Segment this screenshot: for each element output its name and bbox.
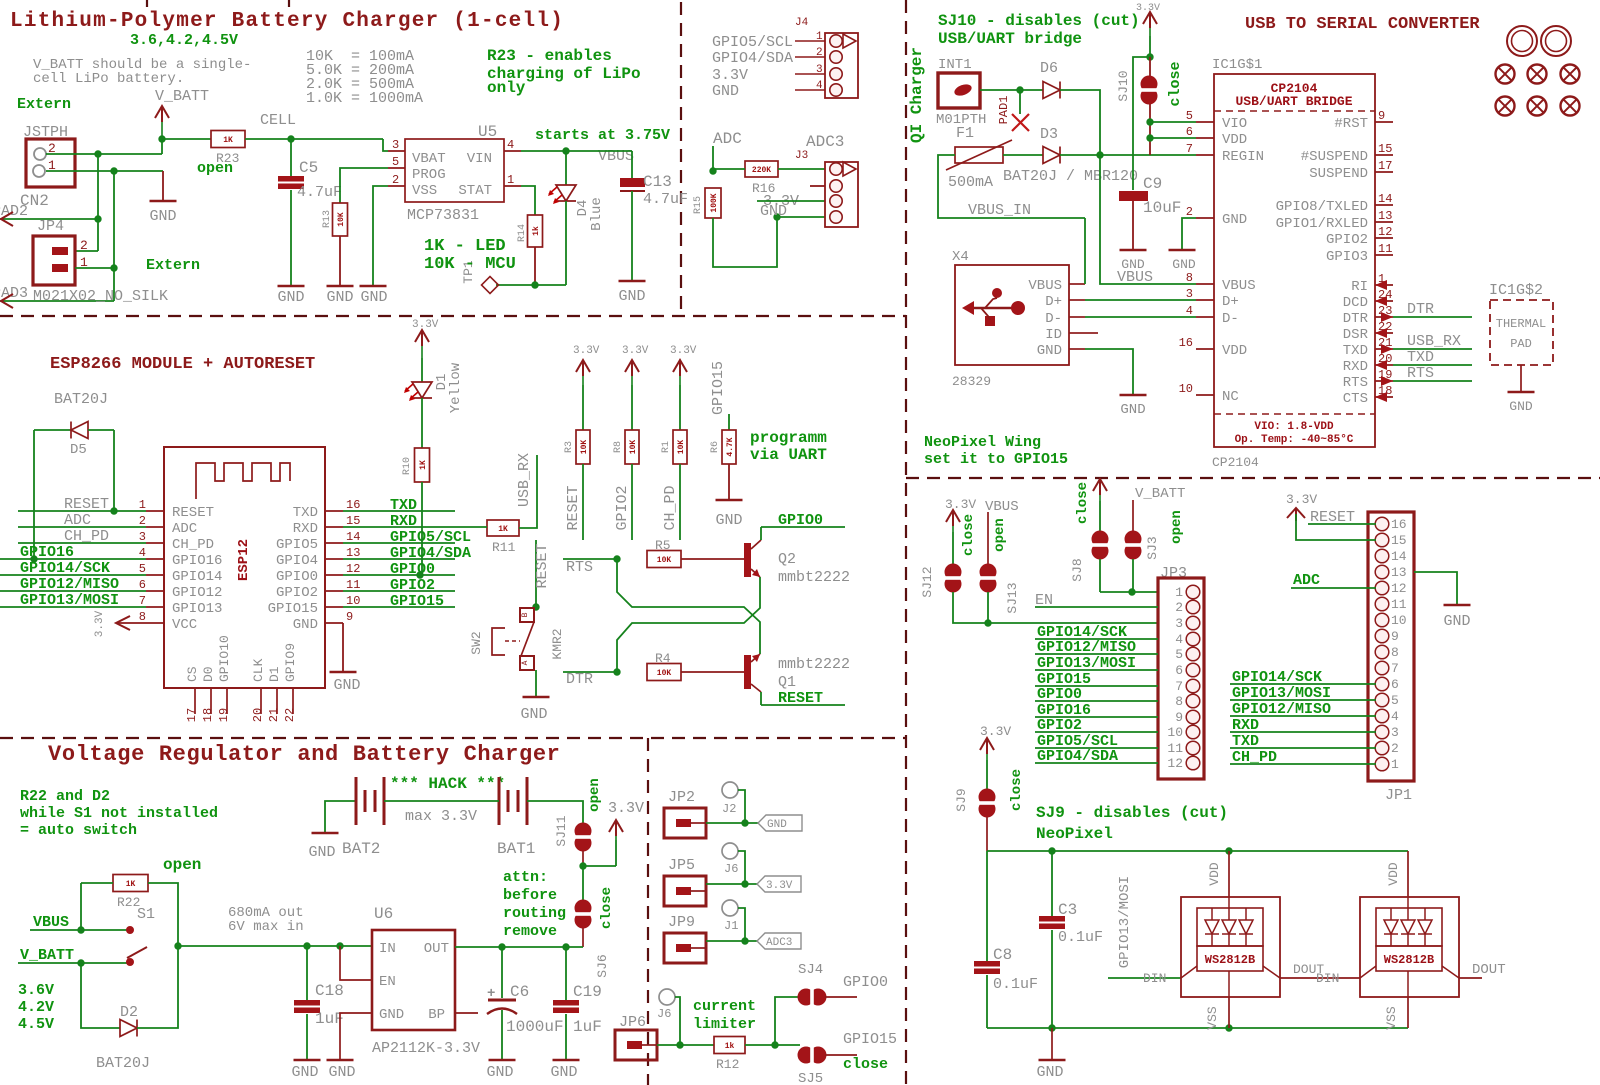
svg-text:close: close xyxy=(843,1056,888,1073)
svg-text:IN: IN xyxy=(379,941,396,957)
svg-text:D-: D- xyxy=(1222,311,1239,327)
svg-text:GND: GND xyxy=(1443,613,1470,630)
svg-text:3.6,4.2,4.5V: 3.6,4.2,4.5V xyxy=(130,32,238,49)
svg-text:12: 12 xyxy=(1391,581,1407,596)
svg-text:QI Charger: QI Charger xyxy=(908,47,926,143)
svg-text:R3: R3 xyxy=(564,441,575,453)
svg-text:RESET: RESET xyxy=(172,505,214,521)
svg-text:6: 6 xyxy=(1391,677,1399,692)
svg-text:X4: X4 xyxy=(952,249,969,265)
svg-text:3.3V: 3.3V xyxy=(766,880,793,892)
svg-text:*** HACK ***: *** HACK *** xyxy=(390,775,505,793)
svg-text:R4: R4 xyxy=(655,651,671,666)
svg-text:GPIO5/SCL: GPIO5/SCL xyxy=(390,529,471,546)
svg-text:2: 2 xyxy=(392,173,399,187)
svg-text:close: close xyxy=(599,887,615,929)
svg-text:28329: 28329 xyxy=(952,374,991,389)
svg-text:GND: GND xyxy=(1121,257,1145,272)
svg-text:JP5: JP5 xyxy=(668,857,695,874)
svg-text:12: 12 xyxy=(1167,756,1183,771)
svg-text:ADC: ADC xyxy=(713,130,742,148)
svg-text:max 3.3V: max 3.3V xyxy=(405,808,477,825)
svg-text:cell LiPo battery.: cell LiPo battery. xyxy=(33,71,184,87)
svg-text:TXD: TXD xyxy=(390,497,417,514)
svg-text:programm: programm xyxy=(750,429,827,447)
svg-text:SJ3: SJ3 xyxy=(1145,536,1160,559)
svg-text:IC1G$2: IC1G$2 xyxy=(1489,282,1543,299)
svg-text:16: 16 xyxy=(1391,517,1407,532)
svg-text:SUSPEND: SUSPEND xyxy=(1309,166,1368,182)
svg-text:R15: R15 xyxy=(693,196,704,214)
svg-text:R6: R6 xyxy=(710,441,721,453)
svg-text:VBAT: VBAT xyxy=(412,151,446,167)
svg-text:V_BATT: V_BATT xyxy=(155,88,209,105)
svg-text:GND: GND xyxy=(328,1064,355,1081)
svg-text:DTR: DTR xyxy=(1407,301,1434,318)
svg-text:WS2812B: WS2812B xyxy=(1205,953,1255,967)
svg-text:10K - MCU: 10K - MCU xyxy=(424,255,516,274)
svg-text:1000uF: 1000uF xyxy=(506,1018,564,1036)
svg-text:3.3V: 3.3V xyxy=(1286,492,1317,507)
svg-text:10K: 10K xyxy=(629,440,638,455)
svg-text:3: 3 xyxy=(139,530,146,544)
svg-text:GPIO0: GPIO0 xyxy=(276,569,318,585)
svg-text:RXD: RXD xyxy=(1343,359,1368,375)
svg-text:SJ8: SJ8 xyxy=(1070,558,1085,581)
svg-text:CH_PD: CH_PD xyxy=(172,537,214,553)
svg-text:only: only xyxy=(487,79,526,97)
svg-text:TXD: TXD xyxy=(1232,733,1259,750)
svg-text:0.1uF: 0.1uF xyxy=(1058,929,1103,946)
svg-text:3.3V: 3.3V xyxy=(412,319,439,331)
svg-text:GPIO15: GPIO15 xyxy=(268,601,318,617)
svg-text:4: 4 xyxy=(139,546,146,560)
svg-text:VIN: VIN xyxy=(467,151,492,167)
svg-text:GPIO15: GPIO15 xyxy=(710,361,727,415)
svg-text:D+: D+ xyxy=(1222,294,1239,310)
svg-text:GND: GND xyxy=(618,288,645,305)
svg-text:remove: remove xyxy=(503,923,557,940)
svg-text:CP2104: CP2104 xyxy=(1212,455,1259,470)
svg-text:1K: 1K xyxy=(419,460,428,470)
svg-text:6V max in: 6V max in xyxy=(228,919,304,935)
svg-text:13: 13 xyxy=(1391,565,1407,580)
svg-text:PAD1: PAD1 xyxy=(997,96,1011,125)
svg-text:10: 10 xyxy=(346,594,360,608)
svg-text:GND: GND xyxy=(326,289,353,306)
svg-text:3.3V: 3.3V xyxy=(712,67,748,84)
svg-text:8: 8 xyxy=(1175,694,1183,709)
svg-text:7: 7 xyxy=(1175,679,1183,694)
svg-text:5: 5 xyxy=(392,155,399,169)
svg-text:JP1: JP1 xyxy=(1385,787,1412,804)
svg-text:VSS: VSS xyxy=(1384,1006,1399,1030)
svg-text:1: 1 xyxy=(1175,585,1183,600)
svg-text:current: current xyxy=(693,998,756,1015)
svg-text:VSS: VSS xyxy=(412,183,437,199)
svg-text:4: 4 xyxy=(816,80,823,92)
svg-text:15: 15 xyxy=(1378,142,1392,156)
svg-text:VDD: VDD xyxy=(1207,862,1222,886)
svg-text:DIN: DIN xyxy=(1316,971,1339,986)
svg-text:RESET: RESET xyxy=(778,690,823,707)
svg-text:GPIO4/SDA: GPIO4/SDA xyxy=(390,545,471,562)
svg-text:R10: R10 xyxy=(402,457,413,475)
svg-text:GPIO3: GPIO3 xyxy=(1326,249,1368,265)
svg-text:USB/UART BRIDGE: USB/UART BRIDGE xyxy=(1235,94,1352,109)
svg-text:0.1uF: 0.1uF xyxy=(993,976,1038,993)
svg-text:10: 10 xyxy=(1179,382,1193,396)
svg-text:WS2812B: WS2812B xyxy=(1384,953,1434,967)
svg-text:CTS: CTS xyxy=(1343,391,1368,407)
svg-text:GPIO14: GPIO14 xyxy=(172,569,222,585)
svg-text:RESET: RESET xyxy=(534,543,551,588)
svg-text:GPIO15: GPIO15 xyxy=(843,1031,897,1048)
svg-text:C3: C3 xyxy=(1058,901,1077,919)
svg-text:14: 14 xyxy=(1391,549,1407,564)
svg-text:5: 5 xyxy=(139,562,146,576)
svg-text:IC1G$1: IC1G$1 xyxy=(1212,57,1262,73)
svg-text:TXD: TXD xyxy=(293,505,318,521)
svg-text:18: 18 xyxy=(201,708,215,722)
svg-text:Blue: Blue xyxy=(589,197,605,231)
svg-text:GND: GND xyxy=(760,203,787,220)
svg-text:GPIO13/MOSI: GPIO13/MOSI xyxy=(1037,655,1136,672)
svg-text:RXD: RXD xyxy=(1232,717,1259,734)
svg-text:RI: RI xyxy=(1351,279,1368,295)
svg-text:DTR: DTR xyxy=(566,671,593,688)
svg-text:10K: 10K xyxy=(337,212,346,227)
svg-text:OUT: OUT xyxy=(424,941,449,957)
svg-text:GND: GND xyxy=(291,1064,318,1081)
svg-text:TXD: TXD xyxy=(1407,349,1434,366)
svg-text:U5: U5 xyxy=(478,123,497,141)
svg-text:VBUS: VBUS xyxy=(1222,278,1256,294)
svg-text:GPIO5/SCL: GPIO5/SCL xyxy=(712,34,793,51)
svg-text:4.7uF: 4.7uF xyxy=(643,191,688,208)
svg-text:GND: GND xyxy=(333,677,360,694)
svg-text:close: close xyxy=(1075,482,1091,524)
svg-text:routing: routing xyxy=(503,905,566,922)
svg-text:1k: 1k xyxy=(532,226,541,236)
svg-text:4.7K: 4.7K xyxy=(726,437,735,456)
svg-text:C6: C6 xyxy=(510,983,529,1001)
svg-text:THERMAL: THERMAL xyxy=(1496,317,1546,331)
svg-text:17: 17 xyxy=(1378,159,1392,173)
svg-text:C5: C5 xyxy=(299,159,318,177)
svg-text:1: 1 xyxy=(1391,757,1399,772)
svg-text:GPIO13/MOSI: GPIO13/MOSI xyxy=(1117,876,1133,968)
svg-text:20: 20 xyxy=(251,708,265,722)
svg-text:GPIO0: GPIO0 xyxy=(778,512,823,529)
svg-text:1: 1 xyxy=(816,31,823,43)
svg-text:2: 2 xyxy=(1391,741,1399,756)
svg-text:4.7uF: 4.7uF xyxy=(297,184,342,201)
svg-text:GND: GND xyxy=(486,1064,513,1081)
svg-text:GND: GND xyxy=(550,1064,577,1081)
svg-text:VDD: VDD xyxy=(1386,862,1401,886)
svg-text:J6: J6 xyxy=(657,1007,671,1021)
svg-text:VBUS: VBUS xyxy=(985,499,1019,515)
svg-text:mmbt2222: mmbt2222 xyxy=(778,656,850,673)
svg-text:J1: J1 xyxy=(724,919,738,933)
svg-text:D6: D6 xyxy=(1040,60,1058,77)
svg-text:SJ9 - disables (cut): SJ9 - disables (cut) xyxy=(1036,804,1228,822)
svg-text:9: 9 xyxy=(1378,109,1385,123)
svg-text:7: 7 xyxy=(1186,142,1193,156)
svg-text:1K: 1K xyxy=(223,136,233,145)
svg-text:open: open xyxy=(1169,510,1185,544)
svg-text:M021X02_NO_SILK: M021X02_NO_SILK xyxy=(33,288,168,305)
svg-text:ADC: ADC xyxy=(172,521,197,537)
svg-text:D0: D0 xyxy=(201,666,216,682)
svg-text:12: 12 xyxy=(346,562,360,576)
svg-text:1: 1 xyxy=(139,498,146,512)
svg-text:9: 9 xyxy=(1175,710,1183,725)
svg-text:GPIO2: GPIO2 xyxy=(1037,717,1082,734)
svg-text:3: 3 xyxy=(1186,287,1193,301)
svg-text:GND: GND xyxy=(379,1007,404,1023)
svg-text:USB/UART bridge: USB/UART bridge xyxy=(938,30,1082,48)
svg-text:V_BATT: V_BATT xyxy=(1135,486,1185,502)
svg-text:CLK: CLK xyxy=(251,658,266,682)
svg-text:limiter: limiter xyxy=(693,1016,756,1033)
svg-text:21: 21 xyxy=(267,708,281,722)
svg-text:CH_PD: CH_PD xyxy=(662,485,679,530)
svg-text:16: 16 xyxy=(346,498,360,512)
svg-text:R8: R8 xyxy=(613,441,624,453)
svg-text:VIO: 1.8-VDD: VIO: 1.8-VDD xyxy=(1254,421,1334,433)
svg-text:10K: 10K xyxy=(657,556,672,565)
svg-text:attn:: attn: xyxy=(503,869,548,886)
svg-text:V_BATT: V_BATT xyxy=(20,947,74,964)
svg-text:11: 11 xyxy=(346,578,360,592)
svg-text:3.3V: 3.3V xyxy=(622,345,649,357)
svg-text:C9: C9 xyxy=(1143,175,1162,193)
svg-text:BAT20J: BAT20J xyxy=(54,391,108,408)
svg-text:R23 - enables: R23 - enables xyxy=(487,47,612,65)
svg-text:6: 6 xyxy=(139,578,146,592)
svg-text:U6: U6 xyxy=(374,905,393,923)
svg-text:via UART: via UART xyxy=(750,446,827,464)
svg-text:J6: J6 xyxy=(724,862,738,876)
svg-text:GPIO13: GPIO13 xyxy=(172,601,222,617)
svg-text:set it to GPIO15: set it to GPIO15 xyxy=(924,451,1068,468)
svg-text:GND: GND xyxy=(1509,399,1533,414)
svg-text:STAT: STAT xyxy=(458,183,492,199)
svg-text:5: 5 xyxy=(1175,647,1183,662)
svg-text:USB_RX: USB_RX xyxy=(516,453,533,507)
svg-text:USB TO SERIAL CONVERTER: USB TO SERIAL CONVERTER xyxy=(1245,15,1480,34)
svg-text:4: 4 xyxy=(1175,632,1183,647)
svg-text:RTS: RTS xyxy=(1343,375,1368,391)
svg-text:15: 15 xyxy=(1391,533,1407,548)
svg-text:11: 11 xyxy=(1391,597,1407,612)
svg-text:10K: 10K xyxy=(580,440,589,455)
svg-text:R22 and D2: R22 and D2 xyxy=(20,788,110,805)
svg-text:VDD: VDD xyxy=(1222,343,1247,359)
svg-text:6: 6 xyxy=(1186,125,1193,139)
svg-text:BP: BP xyxy=(428,1007,445,1023)
svg-text:open: open xyxy=(992,518,1008,552)
svg-text:ADC: ADC xyxy=(1293,572,1320,589)
svg-text:14: 14 xyxy=(346,530,360,544)
svg-text:GND: GND xyxy=(712,83,739,100)
svg-text:GPIO2: GPIO2 xyxy=(390,577,435,594)
svg-text:GPIO15: GPIO15 xyxy=(390,593,444,610)
svg-text:12: 12 xyxy=(1378,225,1392,239)
svg-text:open: open xyxy=(197,160,233,177)
svg-text:GPIO14/SCK: GPIO14/SCK xyxy=(1232,669,1322,686)
svg-text:EN: EN xyxy=(379,974,396,990)
svg-text:GPIO12/MISO: GPIO12/MISO xyxy=(1232,701,1331,718)
svg-text:17: 17 xyxy=(185,708,199,722)
svg-text:GND: GND xyxy=(1036,1064,1063,1081)
svg-text:SJ13: SJ13 xyxy=(1005,582,1020,613)
svg-text:INT1: INT1 xyxy=(938,57,972,73)
svg-text:GND: GND xyxy=(715,512,742,529)
svg-text:ESP12: ESP12 xyxy=(236,539,252,581)
svg-text:13: 13 xyxy=(346,546,360,560)
svg-text:7: 7 xyxy=(139,594,146,608)
svg-text:RXD: RXD xyxy=(293,521,318,537)
svg-text:GPIO12: GPIO12 xyxy=(172,585,222,601)
svg-text:ADC3: ADC3 xyxy=(766,937,792,949)
svg-text:10K: 10K xyxy=(677,440,686,455)
svg-text:VBUS: VBUS xyxy=(1028,278,1062,294)
svg-text:CH_PD: CH_PD xyxy=(1232,749,1277,766)
svg-text:= auto switch: = auto switch xyxy=(20,822,137,839)
svg-text:8: 8 xyxy=(1186,271,1193,285)
svg-text:SJ10: SJ10 xyxy=(1116,70,1131,101)
svg-text:A: A xyxy=(521,660,530,665)
svg-text:NeoPixel Wing: NeoPixel Wing xyxy=(924,434,1041,451)
svg-text:GND: GND xyxy=(149,208,176,225)
svg-text:AP2112K-3.3V: AP2112K-3.3V xyxy=(372,1040,480,1057)
svg-text:3.3V: 3.3V xyxy=(945,497,976,512)
svg-text:VDD: VDD xyxy=(1222,132,1247,148)
svg-text:before: before xyxy=(503,887,557,904)
svg-text:GND: GND xyxy=(1222,212,1247,228)
svg-text:3.3V: 3.3V xyxy=(608,800,644,817)
svg-text:Extern: Extern xyxy=(17,96,71,113)
svg-text:GPIO13/MOSI: GPIO13/MOSI xyxy=(1232,685,1331,702)
svg-text:J4: J4 xyxy=(795,17,809,29)
svg-text:NC: NC xyxy=(1222,389,1239,405)
svg-text:GND: GND xyxy=(520,706,547,723)
svg-text:16: 16 xyxy=(1179,336,1193,350)
svg-text:JP2: JP2 xyxy=(668,789,695,806)
svg-text:Lithium-Polymer Battery Charge: Lithium-Polymer Battery Charger (1-cell) xyxy=(10,10,564,33)
svg-text:CELL: CELL xyxy=(260,112,296,129)
svg-text:SJ5: SJ5 xyxy=(798,1071,823,1085)
svg-text:GPIO8/TXLED: GPIO8/TXLED xyxy=(1276,199,1368,215)
svg-text:JP9: JP9 xyxy=(668,914,695,931)
svg-text:DOUT: DOUT xyxy=(1472,962,1506,978)
svg-text:3.3V: 3.3V xyxy=(573,345,600,357)
svg-text:3: 3 xyxy=(392,138,399,152)
svg-text:1.0K = 1000mA: 1.0K = 1000mA xyxy=(306,90,423,107)
svg-text:RTS: RTS xyxy=(566,559,593,576)
svg-text:BAT20J / MBR120: BAT20J / MBR120 xyxy=(1003,168,1138,185)
svg-text:1K: 1K xyxy=(126,880,136,889)
svg-text:3: 3 xyxy=(816,64,823,76)
svg-text:C18: C18 xyxy=(315,982,344,1000)
svg-text:GPIO1/RXLED: GPIO1/RXLED xyxy=(1276,216,1368,232)
svg-text:mmbt2222: mmbt2222 xyxy=(778,569,850,586)
svg-text:8: 8 xyxy=(139,610,146,624)
svg-text:D-: D- xyxy=(1045,311,1062,327)
svg-text:14: 14 xyxy=(1378,192,1392,206)
svg-text:8: 8 xyxy=(1391,645,1399,660)
svg-text:BAT20J: BAT20J xyxy=(96,1055,150,1072)
svg-text:10uF: 10uF xyxy=(1143,199,1181,217)
svg-text:R5: R5 xyxy=(655,538,671,553)
svg-text:R1: R1 xyxy=(661,441,672,453)
svg-text:SJ9: SJ9 xyxy=(954,788,969,811)
svg-text:GPIO2: GPIO2 xyxy=(1326,232,1368,248)
svg-text:CS: CS xyxy=(185,666,200,682)
svg-text:13: 13 xyxy=(1378,209,1392,223)
svg-text:SJ4: SJ4 xyxy=(798,962,823,978)
svg-text:11: 11 xyxy=(1167,741,1183,756)
svg-text:1: 1 xyxy=(507,173,514,187)
svg-text:RESET: RESET xyxy=(565,485,582,530)
svg-text:11: 11 xyxy=(1378,242,1392,256)
svg-text:DTR: DTR xyxy=(1343,311,1369,327)
svg-text:3.6V: 3.6V xyxy=(18,982,54,999)
svg-text:4: 4 xyxy=(1186,304,1193,318)
svg-text:DSR: DSR xyxy=(1343,327,1369,343)
svg-text:Q1: Q1 xyxy=(778,674,796,691)
svg-text:3: 3 xyxy=(1391,725,1399,740)
svg-text:D5: D5 xyxy=(70,442,87,458)
svg-text:4.5V: 4.5V xyxy=(18,1016,54,1033)
svg-text:VBUS: VBUS xyxy=(33,914,69,931)
svg-text:GND: GND xyxy=(277,289,304,306)
svg-text:close: close xyxy=(1009,769,1025,811)
svg-text:F1: F1 xyxy=(956,125,974,142)
svg-text:GND: GND xyxy=(308,844,335,861)
svg-text:C13: C13 xyxy=(643,173,672,191)
svg-text:VCC: VCC xyxy=(172,617,197,633)
svg-text:JP6: JP6 xyxy=(619,1014,646,1031)
svg-text:SJ10 - disables (cut): SJ10 - disables (cut) xyxy=(938,12,1140,30)
svg-text:VSS: VSS xyxy=(1205,1006,1220,1030)
svg-text:3: 3 xyxy=(1175,616,1183,631)
svg-text:close: close xyxy=(1167,61,1184,106)
svg-text:RTS: RTS xyxy=(1407,365,1434,382)
svg-text:5: 5 xyxy=(1391,693,1399,708)
svg-text:4: 4 xyxy=(507,138,514,152)
svg-text:1k: 1k xyxy=(725,1042,735,1051)
svg-text:500mA: 500mA xyxy=(948,174,993,191)
svg-text:PAD: PAD xyxy=(1510,337,1532,351)
svg-text:GPIO5: GPIO5 xyxy=(276,537,318,553)
svg-text:GPIO4/SDA: GPIO4/SDA xyxy=(712,50,793,67)
svg-text:GPIO0: GPIO0 xyxy=(390,561,435,578)
svg-text:Op. Temp: -40~85°C: Op. Temp: -40~85°C xyxy=(1235,434,1354,446)
svg-text:BAT1: BAT1 xyxy=(497,840,535,858)
svg-text:GND: GND xyxy=(360,289,387,306)
svg-text:22: 22 xyxy=(283,708,297,722)
svg-text:1K: 1K xyxy=(498,525,508,534)
svg-text:220K: 220K xyxy=(752,166,771,175)
svg-text:15: 15 xyxy=(346,514,360,528)
svg-text:4: 4 xyxy=(1391,709,1399,724)
svg-text:GPIO0: GPIO0 xyxy=(843,974,888,991)
svg-text:JP4: JP4 xyxy=(37,218,64,235)
